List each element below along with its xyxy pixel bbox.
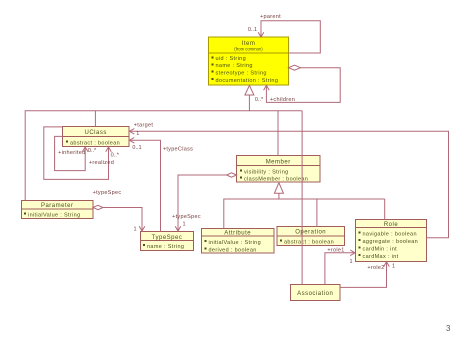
class Association <box>291 285 341 301</box>
svg-text:+typeSpec: +typeSpec <box>172 214 201 220</box>
association role1 (Association -> Role, 1 +role1) <box>325 250 355 285</box>
svg-text:3: 3 <box>446 324 451 333</box>
association realized (UClass self-loop, 0..* +realized) <box>44 127 112 179</box>
svg-text:+inherited: +inherited <box>58 150 85 156</box>
svg-text:Operation: Operation <box>295 230 326 236</box>
class Item (from common) <box>209 37 289 85</box>
svg-text:1: 1 <box>349 259 352 265</box>
svg-text:0..1: 0..1 <box>248 27 257 33</box>
svg-text:+role2: +role2 <box>367 265 384 271</box>
svg-text:Parameter: Parameter <box>41 203 74 209</box>
svg-text:TypeSpec: TypeSpec <box>152 235 183 241</box>
svg-text:0..1: 0..1 <box>132 145 141 151</box>
svg-text:+realized: +realized <box>89 160 114 166</box>
svg-text:1: 1 <box>392 264 395 270</box>
svg-text:(from common): (from common) <box>234 47 263 52</box>
class Parameter <box>22 201 94 219</box>
svg-text:1: 1 <box>182 222 185 228</box>
svg-text:Member: Member <box>266 160 291 166</box>
svg-text:stereotype : String: stereotype : String <box>216 71 267 77</box>
svg-text:name : String: name : String <box>216 63 253 69</box>
svg-text:abstract : boolean: abstract : boolean <box>70 141 120 147</box>
svg-text:name : String: name : String <box>147 244 184 250</box>
svg-text:0..*: 0..* <box>255 97 264 103</box>
association children (Item self-aggregation, 0..* +children) <box>264 65 341 102</box>
svg-text:+typeSpec: +typeSpec <box>93 190 122 196</box>
svg-text:derived : boolean: derived : boolean <box>209 248 257 254</box>
svg-text:UClass: UClass <box>85 130 107 136</box>
svg-text:cardMax : int: cardMax : int <box>363 254 399 260</box>
svg-text:+parent: +parent <box>260 14 281 20</box>
svg-text:aggregate : boolean: aggregate : boolean <box>363 239 419 245</box>
svg-text:documentation : String: documentation : String <box>216 78 279 84</box>
association typeSpec (Parameter -> TypeSpec, 1 +typeSpec) <box>93 205 145 231</box>
association typeClass (TypeSpec -> UClass, 0..1 +typeClass) <box>130 138 161 232</box>
association target (Role -> UClass, 1 +target) <box>130 129 449 238</box>
association parent (Item self-loop, 0..1 +parent) <box>258 21 320 53</box>
svg-text:initialValue : String: initialValue : String <box>28 213 81 219</box>
svg-text:+typeClass: +typeClass <box>163 147 193 153</box>
class Attribute <box>202 229 275 254</box>
class Operation <box>277 227 345 246</box>
generalization trunk to Item (UClass/Parameter/Member/Association -> Item) <box>25 85 302 284</box>
class Member <box>237 156 321 183</box>
svg-text:1: 1 <box>133 227 136 233</box>
svg-text:abstract : boolean: abstract : boolean <box>284 240 334 246</box>
svg-text:1: 1 <box>136 131 139 137</box>
svg-text:+role1: +role1 <box>327 248 344 254</box>
svg-text:initialValue : String: initialValue : String <box>209 240 262 246</box>
class UClass <box>63 127 130 147</box>
svg-text:uid : String: uid : String <box>216 56 247 62</box>
svg-text:navigable : boolean: navigable : boolean <box>363 232 417 238</box>
class TypeSpec <box>141 232 194 251</box>
svg-text:+target: +target <box>134 123 154 129</box>
class Role <box>356 220 427 262</box>
svg-text:Role: Role <box>384 222 399 228</box>
generalization trunk to Member (Attribute/Operation/Role -> Member) <box>224 183 385 229</box>
svg-text:Attribute: Attribute <box>224 231 251 237</box>
association inherited (UClass self-loop, 0..* +inherited) <box>55 136 88 170</box>
svg-text:0..*: 0..* <box>111 153 120 159</box>
svg-text:Association: Association <box>297 291 333 297</box>
association typeSpec (Member -> TypeSpec, 1 +typeSpec) <box>175 173 236 231</box>
svg-text:visibility : String: visibility : String <box>244 170 289 176</box>
svg-text:+children: +children <box>270 97 295 103</box>
svg-text:classMember : boolean: classMember : boolean <box>244 177 308 183</box>
svg-text:0..*: 0..* <box>88 148 97 154</box>
svg-text:cardMin : int: cardMin : int <box>363 247 398 253</box>
association role2 (Association -> Role, 1 +role2) <box>340 262 389 288</box>
